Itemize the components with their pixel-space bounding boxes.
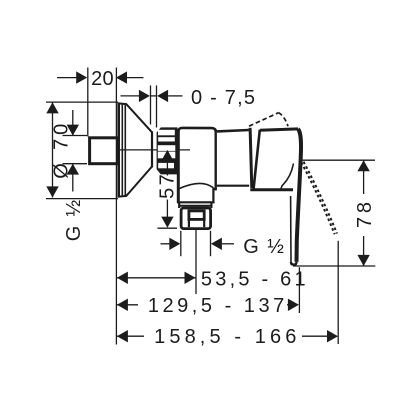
dim 78: bottom extension (293, 265, 375, 267)
dim 20: right arrowhead pointing right (76, 71, 87, 83)
svg-text:20: 20 (91, 68, 114, 90)
escutcheon cone: right face (151, 131, 153, 167)
handle skirt: bottom thick edge (250, 188, 293, 191)
handle lever: blade left edge (290, 196, 292, 262)
mixer body: right edge (214, 130, 216, 191)
escutcheon cone: left face (117, 103, 120, 198)
outlet nut inner rect (189, 211, 204, 220)
dim G1/2 outlet: right extension (210, 231, 212, 256)
cartridge sleeve: right wedge (250, 128, 252, 188)
outlet adapter left edge (178, 202, 180, 208)
dim G1/2 outlet: left extension (180, 231, 182, 256)
dim 57: bottom tick (158, 227, 178, 229)
dotted motion arc 2 (304, 162, 337, 234)
dim 53,5-61: left arrow (117, 272, 128, 284)
dim G1/2 outlet: left shaft (161, 243, 170, 245)
mixer body: flange line 1 (177, 201, 215, 203)
dim diameter 70: vertical line (52, 102, 54, 197)
dim 129,5-137: left shaft (117, 304, 138, 306)
nipple G1/2 inlet (90, 138, 119, 164)
svg-text:0 - 7,5: 0 - 7,5 (191, 87, 255, 109)
knurled nut slot 5 (158, 163, 174, 168)
handle skirt: left slant edge (254, 130, 260, 190)
escutcheon cone: rolled edge line 1 (121, 104, 123, 196)
dim G1/2 nipple: top tick (63, 135, 88, 137)
knurled nut slot 2 (158, 137, 175, 141)
extension line for 166 (337, 241, 339, 344)
dim 78: top extension (300, 159, 376, 161)
wire wall extension line (115, 68, 117, 345)
handle lever: sail curve (281, 164, 293, 190)
dim 78: arrow down (357, 255, 369, 266)
dim G1/2 nipple: upper line (72, 110, 74, 135)
dim G1/2 outlet: right shaft (222, 243, 234, 245)
svg-text:G ½: G ½ (63, 199, 85, 241)
dim diameter 70: top arrow up (46, 102, 58, 113)
dim 0-7,5: connecting segment (151, 95, 157, 97)
dim 20: left arrowhead pointing left (116, 71, 127, 83)
dim 158,5-166: left arrow (117, 330, 128, 342)
dim G1/2 nipple: arrow up (67, 164, 79, 175)
dim G1/2 nipple: bottom tick (63, 163, 88, 165)
handle lever: blade tip (291, 262, 297, 265)
handle lever: blade right edge (297, 129, 302, 262)
dim 0-7,5: arrow pointing right (139, 90, 150, 102)
outlet adapter right edge (210, 202, 212, 208)
dim 0-7,5: extension line 2 (156, 86, 158, 128)
dim G1/2 nipple: arrow down (67, 125, 79, 136)
dim 0-7,5: arrow pointing left (157, 90, 168, 102)
cartridge sleeve: bottom edge (217, 185, 249, 187)
dim 0-7,5: right shaft (168, 95, 182, 97)
dashed lever raised position line 2 (278, 113, 288, 127)
mixer body: left edge (177, 130, 180, 203)
outlet nut outer (181, 208, 211, 229)
dim 0-7,5: left shaft (121, 95, 140, 97)
outlet nut hex line left (188, 220, 190, 228)
dim G1/2 nipple: lower line (72, 164, 74, 192)
dim 129,5-137: left arrow (117, 299, 128, 311)
dim 53,5-61: line (117, 277, 196, 279)
dim 158,5-166: right arrow (327, 330, 338, 342)
knurled nut slot 4 (158, 152, 176, 159)
outlet axis extension (195, 229, 197, 294)
dotted motion arc 1 (301, 162, 334, 234)
mixer body: right lower edge (212, 188, 214, 203)
mixer body: flange line 2 (180, 205, 213, 207)
dim diameter 70: bottom arrow down (46, 186, 58, 197)
dim 53,5-61: right arrow (185, 272, 196, 284)
dim 57: lower line (166, 200, 168, 218)
dim 129,5-137: right arrow (288, 299, 299, 311)
dim 0-7,5: extension line 1 (150, 86, 152, 125)
dim 57: arrow up at axis (161, 150, 173, 161)
svg-text:158,5 - 166: 158,5 - 166 (154, 326, 296, 348)
axis centerline (120, 149, 191, 151)
svg-text:53,5 - 61: 53,5 - 61 (201, 268, 306, 290)
knurled nut slot 1 (158, 130, 175, 136)
dim G1/2 outlet: arrow pointing right (169, 238, 180, 250)
outlet nut hex line right (203, 220, 205, 228)
dim 158,5-166: left shaft (117, 335, 144, 337)
dim 20: left extension line (87, 68, 89, 137)
dashed lever raised position line 1 (249, 113, 278, 126)
dim 158,5-166: right shaft (302, 335, 327, 337)
dim 20: right shaft (127, 77, 144, 79)
knurled union nut (black with white slots) (157, 127, 178, 174)
svg-text:G ½: G ½ (243, 236, 284, 258)
dim diameter 70: bottom tick (46, 198, 118, 200)
escutcheon cone: bottom slope and edge (118, 167, 153, 197)
svg-text:129,5 - 137: 129,5 - 137 (148, 295, 284, 317)
mixer body: top edge (178, 128, 215, 132)
dim 57: upper line (166, 158, 168, 176)
extension line for 137 (298, 267, 300, 313)
handle lever: top edge (260, 129, 298, 130)
knurled nut slot 3 (158, 145, 176, 151)
dim diameter 70: top tick (46, 101, 118, 103)
mixer body: smile curve (178, 183, 213, 189)
dim 78: arrow up (357, 160, 369, 171)
escutcheon cone: top edge and slope (118, 103, 153, 132)
cartridge sleeve: top edge (217, 130, 249, 131)
dim 57: arrow down (161, 217, 173, 228)
dim 20: left shaft (57, 77, 77, 79)
dim G1/2 outlet: arrow pointing left (211, 238, 222, 250)
dim 78: lower line (363, 236, 365, 266)
dim 78: upper line (363, 160, 365, 194)
dim 129,5-137: right shaft (287, 304, 289, 306)
escutcheon cone: rolled edge line 2 (124, 104, 126, 196)
